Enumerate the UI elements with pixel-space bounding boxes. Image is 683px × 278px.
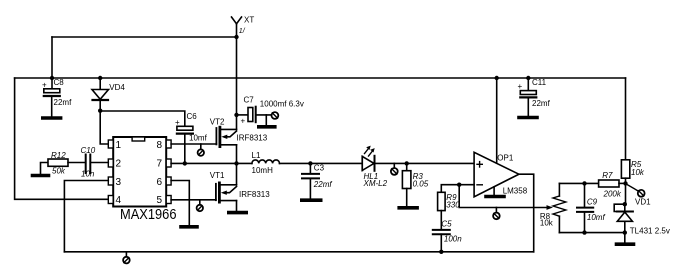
- svg-text:IRF8313: IRF8313: [237, 133, 268, 142]
- svg-text:200k: 200k: [603, 189, 622, 198]
- node: C3 junction: [308, 161, 312, 165]
- svg-text:5: 5: [157, 195, 163, 206]
- wire: op-amp V+ supply: [496, 78, 498, 163]
- resistor R12: [41, 151, 86, 176]
- inductor L1: [252, 151, 280, 175]
- svg-text:+: +: [241, 117, 246, 126]
- capacitor C11: [518, 78, 551, 116]
- wire: inverting input to R8 wiper: [459, 185, 547, 208]
- capacitor C6: [175, 112, 208, 163]
- wire: VT2 source down to LX node: [236, 145, 238, 164]
- wire: left border down to pin 4: [15, 78, 109, 199]
- ground (pin 6): [181, 225, 197, 229]
- wire: input vertical XT down to VT2 drain: [236, 37, 238, 129]
- svg-text:R12: R12: [51, 151, 66, 160]
- svg-text:8: 8: [157, 140, 163, 151]
- svg-text:22mf: 22mf: [532, 99, 551, 108]
- svg-text:22mf: 22mf: [313, 180, 333, 189]
- wire: pin 7 / LX output line: [171, 162, 252, 164]
- wire: C8 feed vertical: [51, 37, 53, 89]
- svg-text:1000mf 6.3v: 1000mf 6.3v: [260, 100, 304, 109]
- svg-text:XT: XT: [244, 16, 254, 25]
- wire: inverting input: [459, 184, 474, 186]
- svg-text:VD1: VD1: [635, 197, 651, 206]
- svg-text:TL431 2.5v: TL431 2.5v: [630, 226, 670, 235]
- svg-text:OP1: OP1: [497, 153, 514, 162]
- wire: pin 6 to ground: [171, 181, 189, 226]
- svg-text:2: 2: [116, 159, 122, 170]
- wire: feedback bottom: [64, 251, 533, 253]
- ground (TL431): [617, 242, 634, 246]
- node: C9 bottom: [582, 230, 586, 234]
- node: LX vertical junction: [234, 161, 238, 165]
- capacitor C10: [81, 146, 109, 179]
- ground (op-amp V-): [486, 187, 504, 197]
- resistor R7: [599, 171, 626, 199]
- svg-text:C8: C8: [54, 78, 65, 87]
- capacitor C3: [302, 163, 332, 198]
- capacitor C9: [577, 183, 605, 232]
- test point (pin 5 wire): [197, 200, 203, 211]
- node: rail-VD4: [98, 76, 102, 80]
- svg-text:VD4: VD4: [109, 83, 125, 92]
- potentiometer R8: [540, 183, 566, 232]
- svg-text:1: 1: [116, 140, 122, 151]
- test point (feedback wire): [123, 252, 130, 264]
- svg-text:R7: R7: [602, 171, 613, 180]
- wire: BST node to C6 top: [100, 111, 185, 126]
- shunt reference VD1 TL431: [614, 204, 670, 243]
- LED HL1: [362, 146, 387, 188]
- wire: pin 5 to VT1 gate: [171, 199, 216, 201]
- svg-text:C9: C9: [587, 197, 598, 206]
- node: R5/R7 junction: [623, 181, 627, 185]
- svg-text:7: 7: [157, 159, 163, 170]
- node: TL431 cathode: [623, 202, 627, 206]
- ground (VT1): [229, 211, 246, 215]
- svg-text:+: +: [175, 118, 180, 127]
- svg-text:10k: 10k: [631, 168, 645, 177]
- node: C6 to LX line: [183, 161, 187, 165]
- svg-text:C7: C7: [244, 96, 255, 105]
- wire: pin 3 to bottom feedback: [64, 181, 108, 252]
- wire top: XT node to C8 column: [52, 36, 237, 38]
- node: rail-C8 junction: [50, 76, 54, 80]
- node: R3 junction: [405, 161, 409, 165]
- ground (C8): [43, 116, 61, 120]
- test point (wiper wire): [493, 208, 500, 220]
- ground (R12): [33, 174, 49, 178]
- node: rail to op-amp supply: [495, 76, 499, 80]
- transistor VT2 IRF8313: [210, 117, 268, 146]
- svg-text:MAX1966: MAX1966: [120, 207, 177, 223]
- wire: R8/C9 bottom to TL431: [559, 232, 624, 234]
- svg-text:C6: C6: [187, 112, 198, 121]
- svg-text:100n: 100n: [444, 235, 462, 244]
- svg-text:10mf: 10mf: [189, 134, 208, 143]
- svg-text:0.05: 0.05: [413, 179, 429, 188]
- svg-text:C3: C3: [314, 164, 325, 173]
- node: VD4 bottom (BST node): [98, 109, 102, 113]
- test point (LED output): [391, 163, 398, 174]
- node: C5 to feedback wire: [439, 250, 443, 254]
- svg-text:VT2: VT2: [210, 117, 225, 126]
- svg-text:XM-L2: XM-L2: [363, 179, 388, 188]
- wire: LED cathode to op-amp + input: [376, 162, 475, 164]
- wire: supply rail: [15, 77, 626, 79]
- svg-text:50k: 50k: [52, 167, 66, 176]
- wire: R8 top to R7: [559, 182, 598, 184]
- test point (pin 8 wire): [198, 144, 204, 156]
- resistor R3: [402, 163, 428, 206]
- ground (C7): [259, 115, 275, 127]
- test point VD1: [627, 185, 651, 207]
- node: XT junction: [234, 35, 238, 39]
- svg-text:10k: 10k: [540, 218, 554, 227]
- svg-text:4: 4: [116, 195, 122, 206]
- diode VD4: [92, 78, 125, 111]
- svg-text:C10: C10: [81, 146, 96, 155]
- svg-text:VT1: VT1: [210, 171, 225, 180]
- wire: pin 8 to VT2 gate: [171, 143, 216, 145]
- ground (C11): [519, 116, 537, 120]
- wire: L1 to LED anode: [280, 162, 363, 164]
- wire: VT1 source to ground: [236, 201, 238, 211]
- node: C9 top: [582, 181, 586, 185]
- node: TL431 anode / bottom rail: [623, 230, 627, 234]
- ground (R3): [399, 206, 417, 210]
- node: rail-C11: [526, 76, 530, 80]
- svg-text:L1: L1: [252, 151, 261, 160]
- svg-text:10n: 10n: [81, 170, 95, 179]
- op-amp OP1 LM358: [474, 152, 528, 197]
- svg-text:330: 330: [446, 200, 460, 209]
- svg-text:LM358: LM358: [503, 186, 528, 195]
- IC U1 MAX1966: [108, 137, 176, 223]
- test point (C7 output): [272, 112, 279, 119]
- capacitor C7: [237, 96, 304, 126]
- svg-text:10mH: 10mH: [252, 166, 274, 175]
- node: C7 input junction: [234, 113, 238, 117]
- svg-text:10mf: 10mf: [587, 213, 606, 222]
- capacitor C5: [433, 219, 462, 252]
- resistor R9: [438, 185, 461, 229]
- wire: BST node to pin 1: [100, 111, 108, 144]
- svg-text:+: +: [42, 81, 47, 90]
- svg-text:C11: C11: [532, 78, 547, 87]
- wire: op-amp output down: [519, 174, 534, 252]
- svg-text:22mf: 22mf: [54, 98, 73, 107]
- connector XT: [232, 16, 255, 38]
- svg-text:IRF8313: IRF8313: [239, 190, 270, 199]
- transistor VT1 IRF8313: [210, 171, 270, 202]
- node: inverting input junction: [457, 183, 461, 187]
- svg-text:6: 6: [157, 177, 163, 188]
- ground (C3): [302, 198, 321, 202]
- svg-text:C5: C5: [441, 219, 452, 228]
- resistor R5: [621, 78, 644, 204]
- svg-text:3: 3: [116, 177, 122, 188]
- capacitor C8: [42, 78, 72, 116]
- wire: VT1 drain up to LX node: [236, 163, 238, 184]
- svg-text:+: +: [518, 82, 523, 91]
